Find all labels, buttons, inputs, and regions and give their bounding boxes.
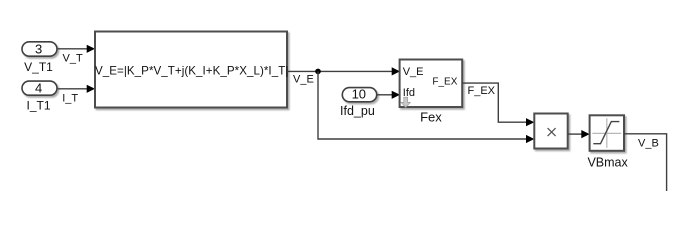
wire V_T bbox=[58, 45, 95, 53]
wire branch from junction to product input 2 bbox=[318, 71, 534, 143]
svg-text:V_B: V_B bbox=[638, 137, 659, 149]
subsystem block Fex bbox=[400, 60, 463, 108]
inport 3 oval bbox=[22, 41, 57, 56]
svg-text:10: 10 bbox=[352, 87, 366, 102]
svg-text:V_E: V_E bbox=[403, 66, 424, 78]
svg-text:V_T: V_T bbox=[63, 52, 83, 64]
svg-text:F_EX: F_EX bbox=[468, 85, 496, 97]
wire V_B output bbox=[624, 134, 667, 191]
wire Ifd_pu to Fex input 2 bbox=[377, 91, 401, 99]
svg-text:I_T: I_T bbox=[62, 93, 78, 105]
block U1 equation V_E bbox=[95, 32, 288, 108]
saturation block VBmax bbox=[590, 115, 624, 151]
wire F_EX from Fex to product input 1 bbox=[462, 83, 534, 126]
wire product to saturation bbox=[568, 130, 590, 138]
svg-text:V_T1: V_T1 bbox=[24, 60, 53, 74]
svg-text:I_T1: I_T1 bbox=[26, 99, 50, 113]
wire V_E from U1 to Fex bbox=[287, 67, 400, 75]
svg-text:F_EX: F_EX bbox=[432, 77, 457, 88]
svg-text:3: 3 bbox=[35, 41, 42, 56]
svg-text:Ifd_pu: Ifd_pu bbox=[340, 104, 375, 118]
inport 10 oval (Ifd_pu) bbox=[342, 87, 376, 102]
inport 4 oval bbox=[22, 80, 57, 95]
icon gray down-arrow inside Fex bbox=[401, 97, 410, 107]
svg-text:V_E: V_E bbox=[293, 73, 314, 85]
wire I_T bbox=[58, 85, 95, 93]
junction node on V_E wire bbox=[315, 69, 321, 75]
svg-text:Fex: Fex bbox=[420, 109, 442, 124]
svg-text:V_E=|K_P*V_T+j(K_I+K_P*X_L)*I_: V_E=|K_P*V_T+j(K_I+K_P*X_L)*I_T| bbox=[95, 65, 288, 78]
svg-text:4: 4 bbox=[35, 80, 42, 95]
svg-text:VBmax: VBmax bbox=[587, 155, 628, 169]
product block X1 bbox=[534, 114, 567, 149]
